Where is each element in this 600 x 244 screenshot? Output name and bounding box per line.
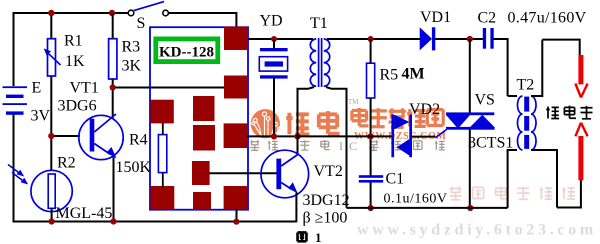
IC U1 outline KD-128: [150, 27, 248, 210]
wire left rail upper: [13, 12, 15, 86]
node VT1 collector: [110, 84, 116, 90]
svg-text:VD1: VD1: [420, 9, 451, 26]
transistor VT1: [79, 114, 123, 160]
diac VD2: [391, 115, 412, 158]
node VS ground: [467, 205, 473, 211]
wire T1 secondary top lead: [327, 38, 420, 40]
IC pad top-right: [224, 27, 248, 51]
wire T2 secondary top: [531, 40, 580, 96]
node R2 ground: [49, 218, 55, 224]
IC pad mid1: [193, 96, 215, 121]
wire YD top lead: [273, 39, 275, 49]
node top R3: [109, 10, 115, 16]
switch S: [128, 2, 168, 16]
resistor R3: [109, 39, 117, 79]
wire top rail: [14, 12, 129, 14]
IC pad mid4: [193, 192, 211, 210]
wire R1 top lead: [50, 13, 52, 39]
watermark logo circle: [251, 109, 281, 138]
IC pad right-bottom: [224, 186, 248, 210]
svg-text:R3: R3: [122, 39, 141, 56]
label discharge needle: [546, 106, 592, 120]
resistor R4: [158, 123, 166, 187]
node VS top: [467, 36, 473, 42]
photoresistor R2: [8, 165, 72, 212]
svg-text:IC: IC: [339, 139, 363, 153]
svg-text:VT1: VT1: [70, 79, 99, 96]
IC pad mid2: [193, 125, 215, 151]
node C1 ground: [368, 205, 374, 211]
wire T2 secondary bottom: [531, 150, 581, 208]
svg-text:3CTS1: 3CTS1: [468, 135, 513, 152]
wire T1 primary bottom lead: [298, 87, 315, 154]
svg-text:R1: R1: [64, 33, 83, 50]
svg-text:R4: R4: [129, 132, 148, 149]
wire VT1 base lead: [51, 135, 80, 137]
watermark faint brush text row: [450, 186, 576, 200]
watermark text 电子市场网: [352, 108, 443, 127]
node R5 top: [368, 36, 374, 42]
wire IC pin to VT2 collector net: [247, 135, 298, 137]
svg-text:3V: 3V: [31, 108, 51, 125]
node YD bottom: [271, 133, 277, 139]
wire IC pad F to ground: [236, 210, 238, 222]
svg-text:0.47u/160V: 0.47u/160V: [508, 9, 587, 26]
svg-text:VD2: VD2: [409, 101, 440, 118]
svg-text:β ≥100: β ≥100: [303, 210, 348, 227]
discharge needle upper arrow: [575, 55, 587, 98]
IC pad left-bottom: [150, 186, 174, 210]
wire C1 bottom lead: [370, 182, 372, 208]
transformer T1: [310, 38, 329, 87]
svg-text:E: E: [32, 79, 42, 96]
node diac junction: [368, 133, 374, 139]
node T1 primary bottom: [294, 133, 300, 139]
IC pad right2: [224, 76, 248, 99]
wire VT1 emitter lead: [113, 155, 115, 222]
svg-text:KD--128: KD--128: [159, 44, 214, 60]
wire bottom rail: [13, 221, 297, 223]
svg-text:T2: T2: [517, 77, 535, 94]
wire R5 bottom lead: [370, 98, 372, 176]
svg-text:YD: YD: [260, 13, 283, 30]
svg-text:MGL-45: MGL-45: [56, 205, 113, 222]
resistor R1: [44, 39, 61, 76]
IC label box KD--128: [156, 39, 218, 62]
wire S to IC pad: [168, 13, 236, 28]
IC pad left1: [150, 100, 173, 124]
svg-text:3DG6: 3DG6: [58, 97, 97, 114]
capacitor C2: [483, 28, 494, 49]
wire YD bottom lead: [273, 79, 275, 137]
svg-text:R5: R5: [380, 66, 399, 83]
wire VT2 emitter lead: [295, 193, 297, 223]
wire R3 top lead: [112, 13, 114, 39]
svg-text:VT2: VT2: [314, 163, 343, 180]
crystal YD: [259, 48, 287, 79]
wire diac right to VS gate: [412, 136, 435, 138]
svg-text:TM: TM: [348, 98, 359, 106]
node top R1: [48, 10, 54, 16]
svg-text:3DG12: 3DG12: [303, 192, 350, 209]
svg-text:T1: T1: [310, 15, 328, 32]
diode VD1: [420, 27, 436, 50]
wire crystal rail to diac: [298, 135, 392, 137]
svg-text:1: 1: [315, 230, 322, 244]
svg-text:C2: C2: [478, 9, 497, 26]
battery E: [3, 86, 28, 115]
wire VD1 to VS C2: [435, 38, 484, 40]
wire right rail: [347, 207, 508, 209]
svg-text:3K: 3K: [122, 58, 142, 75]
node YD top: [271, 36, 277, 42]
resistor R5: [367, 63, 375, 98]
node IC ground: [233, 219, 239, 225]
IC pad right3: [224, 123, 247, 148]
wire R1 bottom lead to R2: [50, 76, 52, 173]
wire IC to YD T1 top: [248, 38, 313, 40]
svg-text:0.1u/160V: 0.1u/160V: [384, 192, 448, 207]
wire left rail lower: [13, 115, 15, 222]
node VT1 emitter ground: [110, 218, 116, 224]
wire C2 right to T2: [494, 39, 518, 96]
svg-text:C1: C1: [386, 170, 405, 187]
discharge needle lower arrow: [575, 123, 587, 181]
svg-text:S: S: [137, 15, 146, 32]
node VT1 base: [48, 133, 54, 139]
watermark big text 维库: [286, 111, 339, 134]
wire R3 bottom lead: [112, 79, 114, 89]
svg-text:4M: 4M: [402, 66, 425, 83]
wire VT1 collector net: [113, 88, 224, 120]
thyristor VS: [435, 39, 494, 208]
transistor VT2: [209, 150, 308, 198]
transformer T2: [518, 96, 537, 150]
label fig1: [298, 232, 307, 241]
svg-text:R2: R2: [57, 154, 76, 171]
capacitor C1: [359, 175, 383, 182]
svg-text:VS: VS: [475, 91, 495, 108]
svg-text:1K: 1K: [65, 53, 85, 70]
wire T2 primary bottom: [508, 150, 517, 208]
svg-text:www.sydzdiy.6to23.com: www.sydzdiy.6to23.com: [357, 222, 597, 239]
svg-text:150K: 150K: [116, 159, 152, 176]
wire T1 secondary bottom lead: [326, 87, 347, 208]
wire R5 top lead: [370, 39, 372, 64]
IC pad mid3: [192, 161, 210, 185]
wire R2 bottom lead: [51, 208, 53, 222]
watermark gray slogan: [250, 140, 330, 150]
